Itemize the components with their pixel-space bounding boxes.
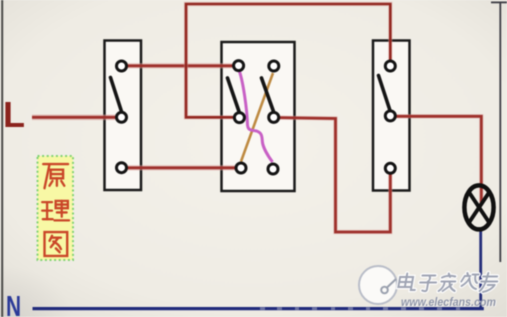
terminal SW3 middle (common) <box>385 111 395 121</box>
switch lever SW2 right <box>262 78 274 112</box>
watermark 电子发烧友 <box>398 273 499 292</box>
wire lamp to neutral (blue) <box>479 231 482 309</box>
svg-text:N: N <box>6 291 21 317</box>
neutral line N (blue) <box>33 307 484 310</box>
terminal SW3 bottom <box>385 163 395 173</box>
watermark logo circle <box>359 266 397 304</box>
terminal SW2 right-bottom <box>268 164 278 174</box>
switch lever SW2 left <box>228 78 240 112</box>
watermark www.elecfans.com <box>401 295 497 310</box>
wire top loop: SW2 left-middle up over to SW3 top <box>186 4 390 117</box>
switch lever SW3 <box>379 76 391 111</box>
terminal SW1 top <box>117 61 127 71</box>
character 原 <box>43 164 68 188</box>
switch box SW2 (intermediate) <box>222 42 295 191</box>
terminal SW2 left-top <box>234 61 244 71</box>
switch box SW1 <box>105 41 142 191</box>
schematic label box 原理图 <box>38 156 74 260</box>
wire SW1 bottom contact to SW2 left-bottom <box>124 165 237 170</box>
terminal SW2 right-middle <box>269 112 279 122</box>
svg-text:L: L <box>3 94 25 135</box>
lamp (circle with X) <box>464 185 493 229</box>
character 理 <box>42 201 69 221</box>
wire L feed to SW1 common <box>32 115 117 121</box>
svg-text:www.elecfans.com: www.elecfans.com <box>401 295 496 309</box>
character 图 <box>45 232 68 256</box>
wire SW1 top contact to SW2 left-top <box>124 63 234 68</box>
terminal SW2 left-bottom <box>236 163 246 173</box>
terminal SW3 top <box>385 61 395 71</box>
terminal SW2 left-middle <box>234 113 244 123</box>
wire SW3 middle to lamp <box>396 116 482 205</box>
terminal SW1 middle (common) <box>117 112 127 122</box>
terminal SW1 bottom <box>117 163 127 173</box>
switch box SW3 <box>373 41 410 191</box>
wire SW2 right-middle down around to SW3 bottom <box>279 118 391 232</box>
crossover wire orange: SW2 left-bottom to right-top <box>241 73 273 162</box>
switch lever SW1 <box>111 78 122 112</box>
terminal SW2 right-top <box>269 61 279 71</box>
light breaks over neutral line under watermark <box>260 307 460 310</box>
crossover wire magenta: SW2 left-top to right-bottom (with hop) <box>240 72 273 163</box>
